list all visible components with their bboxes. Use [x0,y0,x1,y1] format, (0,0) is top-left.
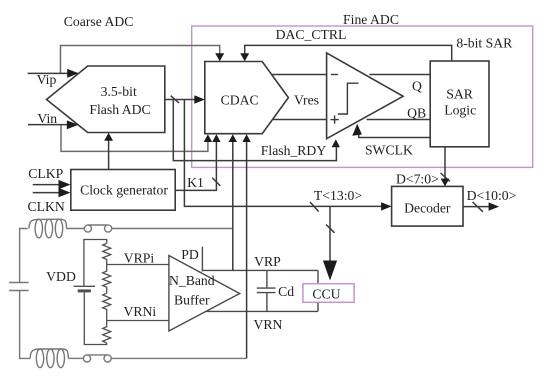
svg-text:Buffer: Buffer [174,293,210,308]
svg-text:D<10:0>: D<10:0> [467,188,517,203]
svg-text:K1: K1 [187,175,204,190]
svg-text:D<7:0>: D<7:0> [396,171,439,186]
svg-text:VRNi: VRNi [123,304,156,319]
svg-text:N_Band: N_Band [169,273,215,288]
svg-text:SWCLK: SWCLK [365,142,413,157]
svg-text:3.5-bit: 3.5-bit [101,84,137,99]
svg-text:CCU: CCU [312,286,340,301]
svg-text:VDD: VDD [46,269,76,284]
svg-text:Fine ADC: Fine ADC [343,12,399,27]
svg-text:T<13:0>: T<13:0> [314,188,362,203]
svg-text:Vip: Vip [37,72,57,87]
svg-text:DAC_CTRL: DAC_CTRL [276,27,347,42]
svg-text:Logic: Logic [444,102,476,117]
svg-text:CLKP: CLKP [28,166,63,181]
svg-text:8-bit SAR: 8-bit SAR [456,36,513,51]
svg-text:Coarse ADC: Coarse ADC [64,14,134,29]
svg-text:Q: Q [412,78,422,93]
svg-text:Flash ADC: Flash ADC [89,102,150,117]
svg-text:Vin: Vin [37,111,57,126]
svg-text:Clock generator: Clock generator [80,183,168,198]
svg-text:Cd: Cd [278,284,294,299]
svg-text:PD: PD [181,247,199,262]
svg-text:Flash_RDY: Flash_RDY [261,143,327,158]
svg-text:Decoder: Decoder [404,201,451,216]
svg-text:SAR: SAR [446,87,473,102]
svg-text:VRN: VRN [253,317,282,332]
svg-text:VRP: VRP [254,254,281,269]
svg-text:CLKN: CLKN [28,199,65,214]
svg-text:VRPi: VRPi [124,251,155,266]
svg-text:Vres: Vres [294,92,319,107]
svg-text:QB: QB [407,106,426,121]
svg-text:CDAC: CDAC [221,92,259,107]
